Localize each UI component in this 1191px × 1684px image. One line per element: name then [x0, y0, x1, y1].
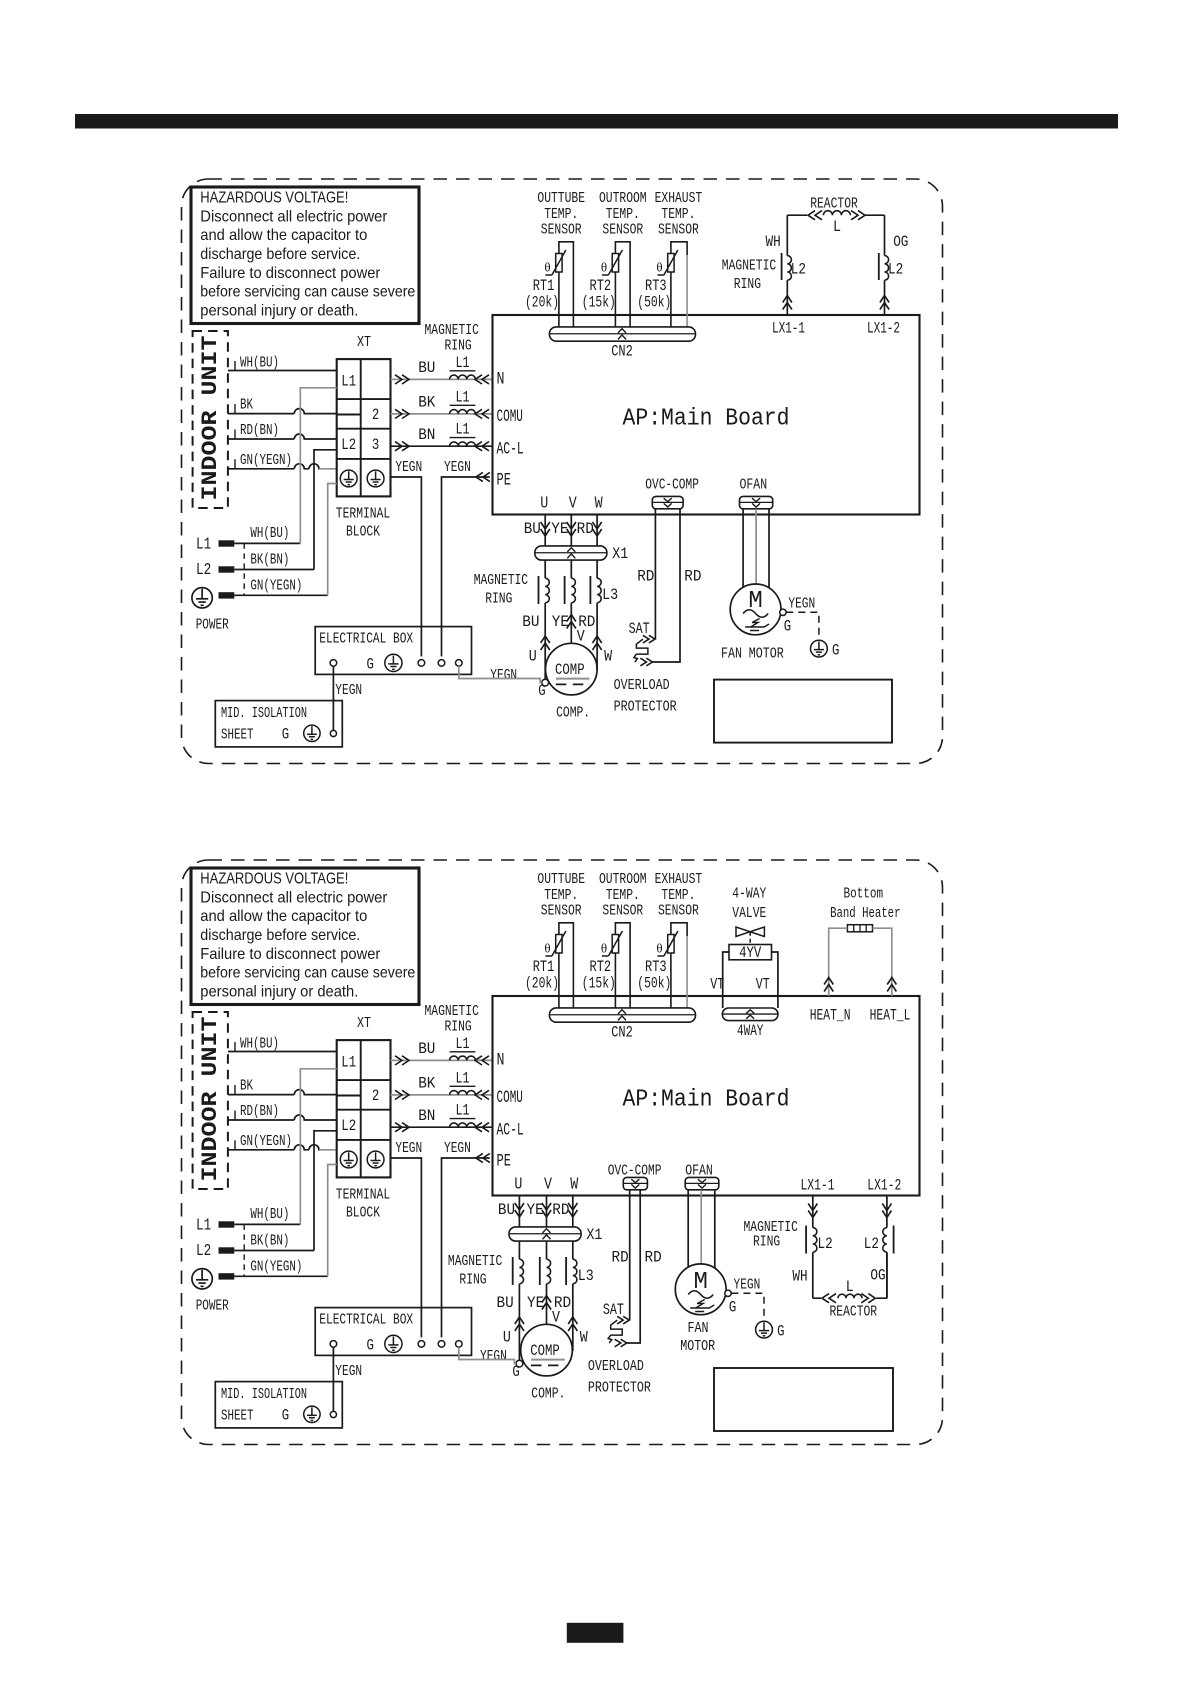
reactor coil L (A) [823, 211, 850, 215]
coil L3 U (A) [545, 578, 549, 603]
arrow in AC-L (B) [475, 1123, 489, 1132]
page top black bar [75, 114, 1118, 129]
ground symbol elec (A) [385, 654, 402, 671]
arrow in PE (B) [476, 1153, 490, 1162]
svg-text:LX1-1: LX1-1 [772, 320, 805, 338]
svg-text:(15k): (15k) [582, 294, 616, 312]
thermistor RT2 symbol (B) [612, 935, 618, 954]
power GN lug (A) [219, 592, 235, 598]
arrow out BU (A) [395, 375, 409, 384]
svg-text:PROTECTOR: PROTECTOR [614, 699, 677, 716]
arrow out BN (A) [395, 442, 409, 451]
coil box 4YV (B) [729, 945, 772, 960]
svg-text:L2: L2 [341, 1117, 356, 1135]
svg-text:W: W [580, 1329, 588, 1347]
magnetic ring bar LX1-1 (B) [805, 1226, 807, 1254]
wire W to X1 (A) [596, 515, 598, 546]
mid isolation sheet box (B) [215, 1382, 342, 1428]
terminal block ground symbol right (B) [367, 1151, 384, 1168]
coil L2 left (A) [787, 256, 791, 281]
svg-text:U: U [529, 648, 537, 666]
svg-text:MID. ISOLATION: MID. ISOLATION [221, 1387, 307, 1403]
svg-text:L3: L3 [602, 586, 618, 604]
terminal block XT inner lines (B) [337, 1040, 391, 1177]
arrow down LX1-1 (B) [808, 1204, 817, 1218]
comp dashed line (B) [531, 1364, 565, 1366]
svg-text:L2: L2 [888, 261, 903, 279]
svg-text:and allow the capacitor to: and allow the capacitor to [200, 908, 367, 925]
svg-text:SENSOR: SENSOR [541, 903, 582, 920]
outdoor unit dashed frame (A) [182, 179, 943, 764]
svg-text:L1: L1 [456, 421, 470, 439]
svg-text:L3: L3 [578, 1267, 594, 1285]
svg-text:(20k): (20k) [525, 294, 559, 312]
wire BN block to board (A) [391, 445, 493, 447]
wire V X1 to coil (B) [546, 1241, 548, 1259]
svg-text:WH(BU): WH(BU) [240, 1037, 279, 1053]
svg-text:HEAT_N: HEAT_N [810, 1007, 851, 1025]
cable marks indoor (B) [234, 1042, 236, 1150]
svg-text:LX1-1: LX1-1 [801, 1177, 835, 1195]
svg-text:personal injury or death.: personal injury or death. [200, 983, 358, 1000]
4-way valve bowtie (B) [736, 927, 764, 937]
fan motor G terminal circle (A) [780, 609, 786, 615]
connector OVC-COMP bar (B) [623, 1177, 647, 1189]
sensor RT3 body (B) [671, 923, 687, 936]
wire YEGN PE to elec box (A) [442, 477, 490, 656]
wire U X1 to coil (A) [544, 560, 546, 578]
arrow down W (B) [568, 1203, 577, 1217]
svg-text:G: G [784, 618, 791, 636]
svg-text:L2: L2 [818, 1235, 833, 1253]
magnetic ring core bar W (A) [589, 576, 591, 604]
svg-text:HAZARDOUS VOLTAGE!: HAZARDOUS VOLTAGE! [200, 190, 348, 207]
ground symbol elec (B) [385, 1335, 402, 1352]
svg-text:before servicing can cause sev: before servicing can cause severe [200, 284, 415, 301]
wire elec to mid sheet (B) [332, 1347, 334, 1412]
power GN wire (B) [234, 1275, 327, 1277]
svg-text:θ: θ [656, 260, 662, 275]
svg-text:SHEET: SHEET [221, 1409, 254, 1425]
svg-text:G: G [367, 656, 374, 674]
coil L2 LX1-2 (B) [883, 1228, 887, 1253]
wire BK indoor (B) [228, 1090, 337, 1095]
power L2 lug (B) [219, 1247, 235, 1253]
outdoor unit dashed frame (B) [182, 860, 943, 1445]
wire GN(YEGN) indoor (A) [228, 464, 319, 469]
svg-text:(20k): (20k) [525, 975, 559, 993]
svg-text:before servicing can cause sev: before servicing can cause severe [200, 965, 415, 982]
svg-text:θ: θ [601, 941, 607, 956]
svg-text:(50k): (50k) [637, 294, 671, 312]
power L1 lug (A) [219, 540, 235, 546]
fan motor circle (B) [675, 1264, 726, 1315]
svg-text:X1: X1 [586, 1226, 602, 1244]
svg-text:BLOCK: BLOCK [346, 524, 380, 541]
svg-text:RD(BN): RD(BN) [240, 423, 279, 439]
elec terminal 1 (B) [330, 1341, 337, 1348]
coil L1 underline BU (B) [450, 1051, 476, 1053]
svg-text:RD: RD [577, 520, 594, 538]
coil L1 underline BK (A) [450, 404, 476, 406]
svg-text:GN(YEGN): GN(YEGN) [240, 453, 292, 469]
cable marks indoor (A) [234, 361, 236, 469]
svg-text:MAGNETIC: MAGNETIC [425, 1003, 479, 1020]
power ground symbol (B) [192, 1269, 212, 1289]
reactor arrows right (A) [851, 211, 865, 220]
svg-text:G: G [512, 1363, 519, 1381]
wire ofan 1 (B) [687, 1190, 689, 1267]
wire YEGN PE to elec box (B) [442, 1158, 490, 1337]
svg-text:MAGNETIC: MAGNETIC [448, 1253, 502, 1270]
sensor RT1 body (A) [559, 242, 574, 255]
svg-text:TEMP.: TEMP. [661, 206, 695, 223]
wire LX1-2 vertical (A) [884, 215, 886, 255]
svg-text:ELECTRICAL BOX: ELECTRICAL BOX [319, 1312, 413, 1329]
wire OVC left (B) [629, 1190, 631, 1320]
svg-text:L1: L1 [341, 1054, 356, 1072]
svg-text:YE: YE [551, 520, 568, 538]
wire GN(YEGN) indoor gray tail (B) [319, 1149, 337, 1151]
wire W to comp (B) [572, 1284, 574, 1351]
svg-text:discharge before service.: discharge before service. [200, 246, 360, 263]
svg-text:N: N [497, 370, 505, 390]
coil L1 ferrite BU (B) [450, 1056, 476, 1060]
wire elec to comp G gray (B) [459, 1347, 516, 1363]
svg-text:OUTTUBE: OUTTUBE [537, 190, 585, 207]
svg-text:Bottom: Bottom [844, 886, 884, 903]
svg-text:FAN: FAN [688, 1320, 709, 1337]
arrow down W (A) [593, 522, 602, 536]
svg-text:L1: L1 [456, 1035, 470, 1053]
svg-text:OVERLOAD: OVERLOAD [588, 1358, 644, 1375]
coil L3 W (A) [597, 578, 601, 603]
svg-text:YEGN: YEGN [788, 595, 815, 612]
wire U X1 to coil (B) [518, 1241, 520, 1259]
svg-text:L2: L2 [196, 560, 211, 579]
comp terminal G circle (B) [516, 1360, 523, 1367]
wire LX1-1 vertical (A) [786, 215, 788, 255]
svg-text:CN2: CN2 [611, 343, 633, 361]
svg-text:4WAY: 4WAY [737, 1022, 764, 1040]
fan motor G terminal circle (B) [725, 1290, 731, 1296]
svg-text:SAT: SAT [603, 1301, 624, 1319]
wire OVC right (B) [626, 1190, 640, 1343]
svg-text:V: V [569, 495, 578, 514]
svg-text:Failure to disconnect power: Failure to disconnect power [200, 946, 380, 963]
wire W to X1 (B) [572, 1196, 574, 1227]
svg-text:SENSOR: SENSOR [541, 222, 582, 239]
coil L1 underline BU (A) [450, 370, 476, 372]
indoor unit dashed box (A) [193, 331, 228, 508]
wire elec to mid sheet (A) [332, 666, 334, 731]
svg-text:GN(YEGN): GN(YEGN) [250, 579, 302, 595]
wire L2 feed (B) [314, 1131, 337, 1251]
arrow up W wire (A) [593, 636, 602, 650]
svg-text:Failure to disconnect power: Failure to disconnect power [200, 265, 380, 282]
coil L2 right (A) [885, 256, 889, 281]
heater wire left (B) [829, 928, 848, 996]
svg-text:RT1: RT1 [533, 958, 555, 976]
svg-text:M: M [748, 588, 762, 615]
svg-text:2: 2 [372, 406, 379, 424]
coil L3 W (B) [573, 1259, 577, 1284]
svg-text:TEMP.: TEMP. [606, 887, 640, 904]
arrow up HEAT_L (B) [887, 978, 896, 992]
magnetic ring core bar U (A) [538, 576, 540, 604]
sensor RT3 wire right (A) [686, 255, 688, 327]
magnetic ring core bar left (A) [781, 253, 783, 280]
sensor RT2 wire right (B) [629, 936, 631, 1008]
sensor RT1 wire left (A) [558, 272, 560, 327]
svg-text:RD: RD [637, 568, 654, 586]
coil L1 underline BK (B) [450, 1085, 476, 1087]
svg-text:WH(BU): WH(BU) [250, 1207, 289, 1223]
svg-text:TEMP.: TEMP. [544, 206, 578, 223]
svg-text:BK: BK [240, 1079, 253, 1095]
svg-text:OUTROOM: OUTROOM [599, 190, 647, 207]
svg-text:V: V [552, 1309, 560, 1327]
elec terminal 2 (A) [418, 660, 425, 667]
elec terminal 4 (B) [456, 1341, 463, 1348]
blank note box (B) [714, 1368, 893, 1431]
svg-text:EXHAUST: EXHAUST [655, 190, 703, 207]
svg-text:V: V [577, 628, 585, 646]
svg-text:G: G [729, 1299, 736, 1317]
wire RD(BN) indoor (B) [228, 1115, 337, 1120]
svg-text:YEGN: YEGN [335, 682, 362, 699]
terminal block XT outline (B) [337, 1040, 391, 1177]
svg-text:BK(BN): BK(BN) [250, 1234, 289, 1250]
svg-text:SAT: SAT [629, 620, 650, 638]
overload protector symbol (B) [617, 1316, 629, 1324]
svg-text:personal injury or death.: personal injury or death. [200, 302, 358, 319]
reactor coil bottom (B) [838, 1294, 862, 1298]
svg-text:L1: L1 [456, 1102, 470, 1120]
coil L1 underline BN (B) [450, 1118, 476, 1120]
wire BU block to board (A) [391, 378, 493, 380]
comp underline (A) [556, 678, 590, 680]
svg-text:TERMINAL: TERMINAL [336, 1187, 390, 1204]
arrow in N (B) [475, 1056, 489, 1065]
arrow up V wire (B) [542, 1296, 551, 1310]
wire VT left (B) [723, 952, 729, 1008]
sensor RT1 wire right (B) [572, 936, 574, 1008]
wire GN feed gray (A) [328, 484, 337, 596]
svg-text:YEGN: YEGN [444, 1140, 471, 1157]
power cable dash (B) [243, 1224, 245, 1276]
wire V to comp (A) [570, 603, 572, 644]
terminal X1 bar (B) [509, 1227, 581, 1241]
svg-text:θ: θ [544, 260, 550, 275]
svg-text:WH: WH [766, 233, 781, 251]
svg-text:LX1-2: LX1-2 [867, 1177, 901, 1195]
svg-text:OG: OG [893, 233, 908, 251]
svg-text:INDOOR UNIT: INDOOR UNIT [197, 336, 223, 501]
coil L2 LX1-1 (B) [813, 1228, 817, 1253]
sensor RT3 wire right (B) [686, 936, 688, 1008]
elec terminal 3 (B) [438, 1341, 445, 1348]
terminal block ground symbol left (B) [340, 1151, 357, 1168]
wire YEGN block to elec box (B) [391, 1158, 422, 1337]
svg-text:RT3: RT3 [645, 277, 667, 295]
svg-text:BU: BU [524, 520, 541, 538]
magnetic ring bar LX1-2 (B) [893, 1226, 895, 1254]
hazardous voltage warning box (B) [191, 868, 419, 1005]
wire BN block to board (B) [391, 1126, 493, 1128]
svg-text:G: G [832, 642, 839, 660]
svg-text:RD: RD [645, 1249, 662, 1267]
wire V to comp (B) [546, 1284, 548, 1325]
svg-text:G: G [777, 1323, 784, 1341]
svg-text:MID. ISOLATION: MID. ISOLATION [221, 706, 307, 722]
connector CN2 bar (A) [549, 327, 695, 341]
svg-text:COMP.: COMP. [556, 705, 590, 722]
arrow out BN (B) [395, 1123, 409, 1132]
svg-text:MOTOR: MOTOR [680, 1338, 715, 1355]
ground symbol fan (A) [811, 640, 828, 657]
electrical box outline (B) [315, 1308, 471, 1356]
4-way valve stem (B) [749, 932, 751, 945]
wire V to X1 (A) [570, 515, 572, 546]
svg-text:W: W [604, 648, 612, 666]
wire ofan 3 (A) [768, 509, 770, 588]
terminal block XT inner lines (A) [337, 359, 391, 496]
magnetic ring core bar V (B) [539, 1257, 541, 1285]
svg-text:(50k): (50k) [637, 975, 671, 993]
svg-text:RD(BN): RD(BN) [240, 1104, 279, 1120]
overload protector symbol (A) [643, 635, 655, 643]
svg-text:YEGN: YEGN [490, 667, 517, 684]
svg-text:RING: RING [753, 1234, 780, 1251]
svg-text:SENSOR: SENSOR [602, 903, 643, 920]
svg-text:L1: L1 [456, 388, 470, 406]
svg-text:3: 3 [372, 436, 379, 454]
arrow out BU (B) [395, 1056, 409, 1065]
motor wave symbol (A) [743, 610, 768, 618]
svg-text:YEGN: YEGN [734, 1276, 761, 1293]
wire U to comp (A) [544, 603, 546, 679]
wire WH(BU) indoor (A) [228, 370, 337, 372]
arrow in COMU (B) [475, 1090, 489, 1099]
power ground symbol (A) [192, 588, 212, 608]
compressor COMP circle (A) [546, 643, 598, 695]
svg-text:L1: L1 [456, 1069, 470, 1087]
svg-text:4YV: 4YV [739, 944, 762, 962]
coil L3 U (B) [519, 1259, 523, 1284]
arrow down V (A) [567, 522, 576, 536]
terminal block XT outline (A) [337, 359, 391, 496]
svg-text:RING: RING [459, 1272, 486, 1289]
wire L1 feed gray (B) [300, 1069, 336, 1225]
coil L1 ferrite BN (B) [450, 1123, 476, 1127]
wire LX1-2 down (B) [886, 1197, 888, 1299]
svg-text:COMP: COMP [555, 661, 585, 679]
sensor RT3 wire left (A) [670, 272, 672, 327]
svg-text:EXHAUST: EXHAUST [655, 871, 703, 888]
wire W X1 to coil (A) [596, 560, 598, 578]
svg-text:L: L [846, 1278, 854, 1296]
wire GN(YEGN) indoor gray tail (A) [319, 468, 337, 470]
sensor RT1 body (B) [559, 923, 574, 936]
svg-text:OG: OG [870, 1266, 885, 1284]
thermistor RT1 symbol (B) [556, 935, 562, 954]
arrow down U (B) [515, 1203, 524, 1217]
motor thermal contact (A) [745, 619, 769, 631]
wire W to comp (A) [596, 603, 598, 670]
svg-text:L1: L1 [196, 1216, 211, 1235]
magnetic ring core bar right (A) [878, 253, 880, 280]
connector OFAN bar (B) [685, 1177, 719, 1189]
svg-text:L: L [833, 218, 841, 236]
svg-text:L2: L2 [791, 261, 806, 279]
power L2 lug (A) [219, 566, 235, 572]
terminal block ground symbol left (A) [340, 470, 357, 487]
arrow in PE (A) [476, 472, 490, 481]
arrow in COMU (A) [475, 409, 489, 418]
svg-text:U: U [503, 1329, 511, 1347]
svg-text:2: 2 [372, 1087, 379, 1105]
arrow in AC-L (A) [475, 442, 489, 451]
svg-text:OFAN: OFAN [740, 477, 768, 494]
mid sheet terminal circle (B) [330, 1411, 336, 1417]
svg-text:VT: VT [756, 976, 770, 994]
svg-text:RING: RING [734, 276, 761, 293]
ground symbol mid (B) [304, 1406, 320, 1422]
sensor RT3 wire left (B) [670, 953, 672, 1008]
wire L2 feed (A) [314, 450, 337, 570]
svg-text:XT: XT [357, 1015, 371, 1032]
sensor RT2 wire left (A) [614, 272, 616, 327]
svg-text:W: W [595, 495, 604, 514]
ground symbol fan (B) [756, 1321, 773, 1338]
arrow up U wire (B) [515, 1317, 524, 1331]
svg-text:RT2: RT2 [590, 958, 612, 976]
reactor arrows left (A) [808, 211, 822, 220]
svg-text:θ: θ [544, 941, 550, 956]
svg-text:and allow the capacitor to: and allow the capacitor to [200, 227, 367, 244]
svg-text:θ: θ [601, 260, 607, 275]
connector 4WAY bar (B) [722, 1008, 778, 1021]
wire BK block to board (B) [391, 1094, 493, 1096]
svg-text:G: G [282, 726, 289, 744]
svg-text:ELECTRICAL BOX: ELECTRICAL BOX [319, 631, 413, 648]
svg-text:LX1-2: LX1-2 [867, 320, 900, 338]
reactor arrows right (B) [861, 1294, 875, 1303]
svg-text:L1: L1 [196, 535, 211, 554]
svg-text:BLOCK: BLOCK [346, 1205, 380, 1222]
svg-text:RD: RD [552, 1201, 569, 1219]
comp underline (B) [531, 1359, 565, 1361]
reactor bottom wire (B) [813, 1252, 887, 1298]
connector CN2 bar (B) [549, 1008, 695, 1022]
svg-text:MAGNETIC: MAGNETIC [474, 572, 528, 589]
svg-text:COMU: COMU [497, 1088, 523, 1108]
svg-text:YEGN: YEGN [395, 459, 422, 476]
mid sheet terminal circle (A) [330, 730, 336, 736]
dashed wire to ground (A) [786, 612, 819, 640]
thermistor RT2 symbol (A) [612, 254, 618, 273]
svg-text:FAN: FAN [721, 646, 742, 663]
svg-text:AP:Main Board: AP:Main Board [623, 406, 790, 433]
coil L1 ferrite BK (A) [450, 410, 476, 414]
svg-text:BN: BN [418, 1107, 435, 1125]
wire GN feed gray (B) [328, 1165, 337, 1277]
svg-text:BU: BU [522, 613, 539, 631]
arrow up LX1-1 (A) [783, 296, 792, 310]
main board AP outline (B) [493, 996, 920, 1196]
arrow up V wire (A) [567, 615, 576, 629]
